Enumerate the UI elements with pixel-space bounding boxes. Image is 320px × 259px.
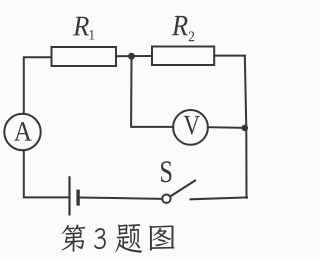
label A inside ammeter xyxy=(14,122,32,140)
label R1 letter R xyxy=(73,17,89,36)
label R2 letter R xyxy=(172,16,188,35)
resistor R1 xyxy=(52,47,117,66)
wire battery to switch xyxy=(80,198,163,199)
caption glyph 图 xyxy=(149,225,174,250)
caption glyph 题 xyxy=(115,224,142,253)
wire R1 to R2 xyxy=(116,55,152,57)
label V inside voltmeter xyxy=(184,116,200,135)
wire ammeter to bottom-left corner xyxy=(24,150,69,197)
caption glyph 第 xyxy=(61,224,85,251)
node junction right rail xyxy=(242,125,249,132)
label R1 subscript 1 xyxy=(90,30,95,40)
wire switch to bottom-right xyxy=(191,197,248,199)
wire junction to voltmeter xyxy=(131,58,173,127)
voltmeter V circle xyxy=(173,110,208,145)
ammeter A circle xyxy=(4,114,40,150)
wire right rail xyxy=(245,56,247,198)
switch S lever xyxy=(170,181,195,197)
battery short thick plate xyxy=(76,190,79,206)
label R2 subscript 2 xyxy=(189,32,195,42)
switch S hinge xyxy=(162,195,170,203)
label S above switch xyxy=(161,161,171,182)
resistor R2 xyxy=(152,47,214,66)
wire voltmeter to right rail xyxy=(208,126,245,129)
wire R2 to right rail xyxy=(214,55,245,57)
wire top-left corner xyxy=(24,57,52,114)
caption glyph 3 xyxy=(94,228,106,249)
node junction below R1-R2 xyxy=(128,53,135,60)
battery long plate xyxy=(68,177,70,214)
